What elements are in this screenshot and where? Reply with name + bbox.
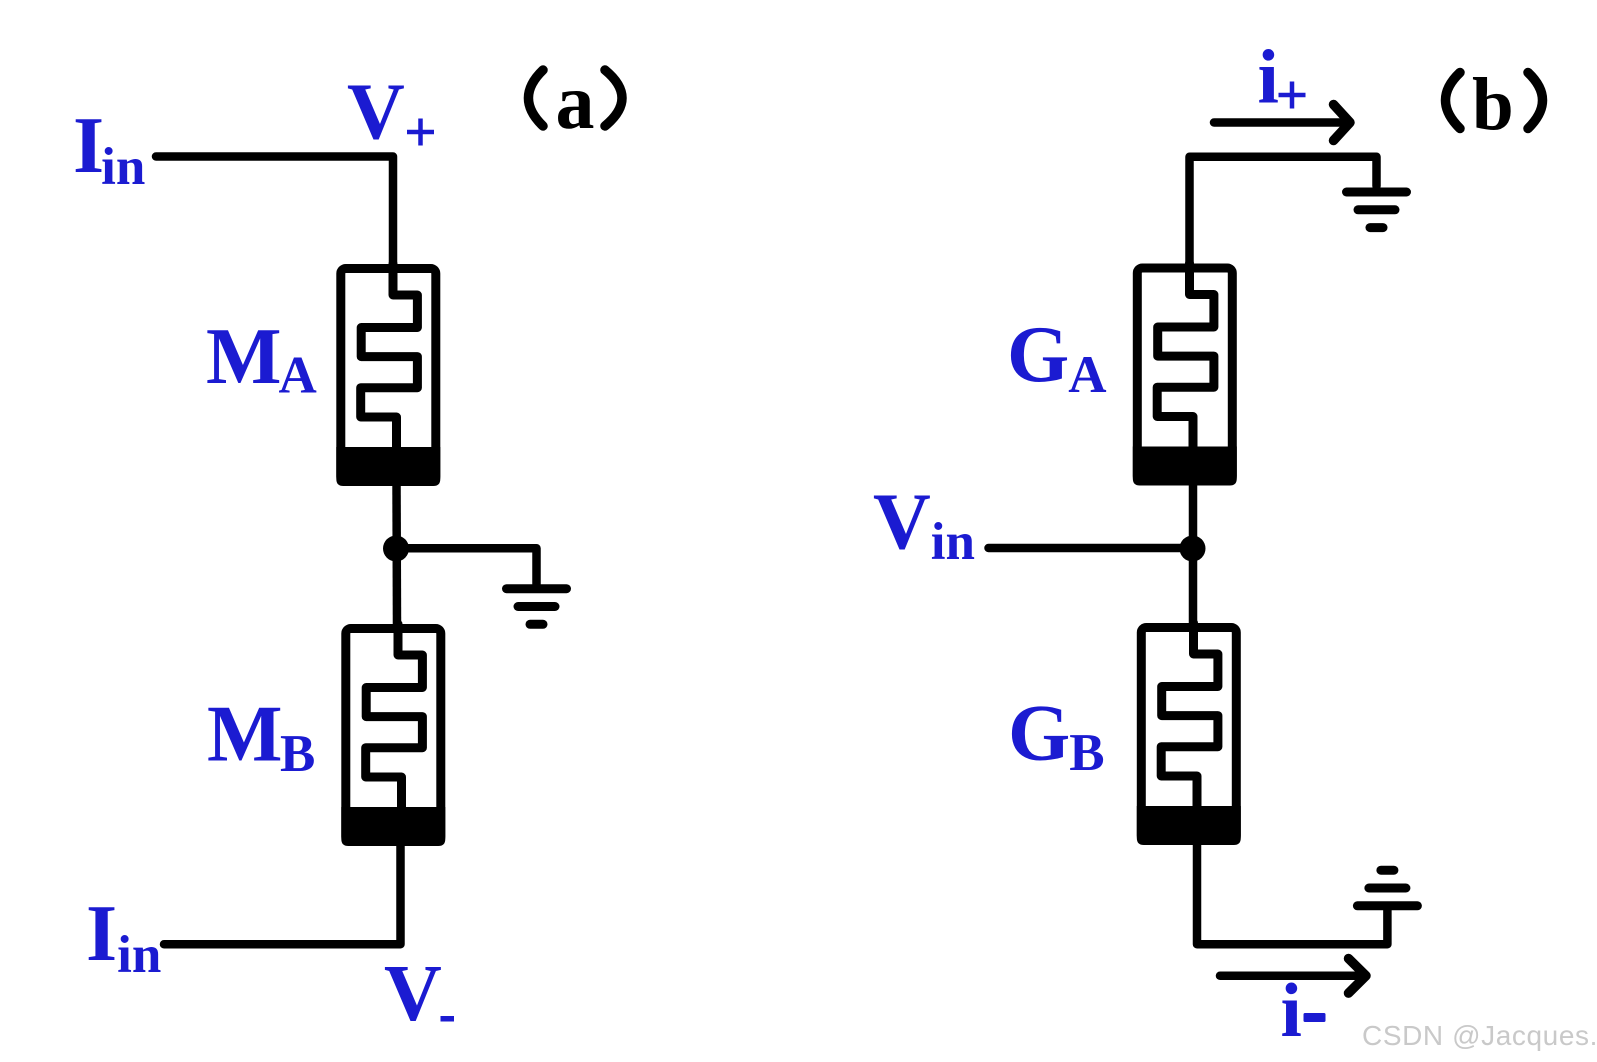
svg-text:b: b [1472, 64, 1514, 147]
wire MA bottom to MB top [392, 480, 401, 628]
label (b) [1446, 73, 1461, 129]
svg-text:V: V [347, 69, 405, 157]
arrow i+ [1214, 105, 1350, 141]
wire top: GA up, across, down to ground [1190, 157, 1377, 268]
wire Vin to node [989, 544, 1193, 553]
wire GB bottom right up to inverted ground [1197, 840, 1387, 944]
svg-text:Iin: Iin [73, 102, 145, 196]
svg-text:MB: MB [207, 691, 315, 784]
ground (b) top [1347, 192, 1407, 228]
memristor MA [336, 264, 440, 486]
arrow i- [1220, 959, 1366, 994]
svg-text:a: a [556, 58, 595, 145]
node A [383, 536, 409, 562]
memristor GB [1137, 623, 1241, 845]
wire MB bottom to I_in bottom [164, 840, 401, 944]
svg-text:MA: MA [206, 313, 317, 405]
wire node to ground stub [396, 548, 537, 584]
memristor GA [1133, 264, 1237, 486]
ground (a) [507, 589, 567, 625]
svg-text:i: i [1258, 34, 1279, 120]
label (a) [528, 70, 543, 126]
svg-text:i: i [1281, 968, 1302, 1054]
wire I_in to V+ corner down to MA [156, 157, 393, 269]
wire GA bottom through node to GB top [1189, 478, 1198, 630]
svg-text:V: V [384, 950, 442, 1038]
ground (b) bottom inverted [1357, 870, 1417, 906]
svg-text:Vin: Vin [873, 479, 975, 572]
svg-text:CSDN @Jacques.: CSDN @Jacques. [1362, 1020, 1597, 1051]
svg-text:GB: GB [1008, 690, 1105, 783]
node B [1180, 536, 1206, 562]
svg-text:Iin: Iin [86, 890, 161, 984]
memristor MB [341, 624, 445, 846]
svg-text:GA: GA [1007, 311, 1107, 404]
